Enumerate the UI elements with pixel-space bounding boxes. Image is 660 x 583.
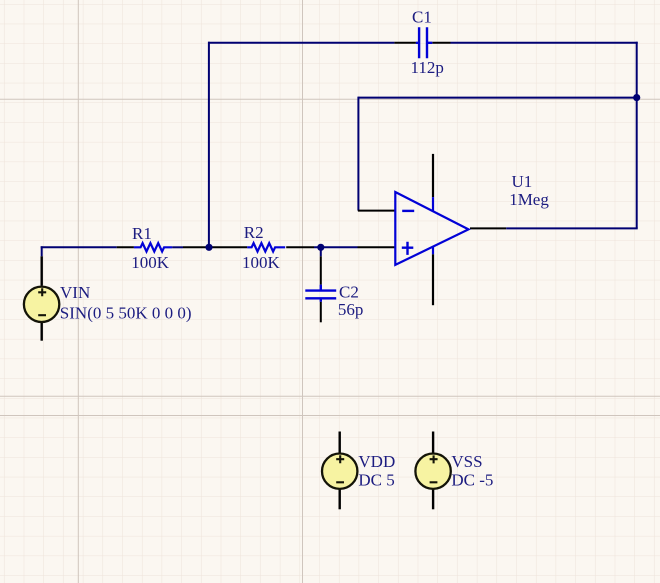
junction node A: R1/R2/left vertical [205, 244, 212, 251]
svg-text:R2: R2 [244, 223, 264, 242]
wire: right vertical from top wire to output [636, 42, 638, 229]
pin: U1 negative supply pin [432, 254, 434, 305]
op-amp U1 supply stub top [432, 197, 434, 211]
svg-text:VIN: VIN [60, 283, 90, 302]
pin: R2 pin 1 [209, 246, 247, 248]
pin: R2 pin 2 [286, 246, 314, 248]
wire: VIN top vertical [41, 246, 43, 256]
wire: R2 to node B [314, 246, 358, 248]
label R2 designator [244, 223, 264, 242]
pin: U1 output pin [470, 227, 506, 229]
svg-text:112p: 112p [411, 58, 444, 77]
pin: U1 positive supply pin [432, 154, 434, 197]
svg-text:100K: 100K [131, 253, 170, 272]
label VIN designator [60, 283, 90, 302]
wire: feedback horizontal into node at right vertical [358, 97, 636, 99]
svg-text:C1: C1 [412, 7, 432, 26]
label C1 value 112p [411, 58, 444, 77]
label C2 designator [339, 282, 359, 301]
svg-text:DC 5: DC 5 [358, 470, 394, 489]
svg-text:56p: 56p [338, 300, 364, 319]
label VDD designator [358, 452, 395, 471]
resistor R2 [247, 243, 285, 251]
wire: node B down to C2 [320, 247, 322, 256]
svg-text:U1: U1 [512, 172, 533, 191]
pin: VIN positive pin [41, 256, 43, 285]
label U1 designator [512, 172, 533, 191]
pin: VDD positive pin [339, 432, 341, 454]
wire: output to right vertical [506, 227, 638, 229]
label C2 value 56p [338, 300, 364, 319]
pin: C1 pin 2 [432, 42, 450, 44]
pin: U1 non-inverting input pin [358, 246, 396, 248]
label R1 value 100K [131, 253, 170, 272]
svg-text:VDD: VDD [358, 452, 395, 471]
pin: VSS negative pin [432, 489, 434, 509]
svg-text:1Meg: 1Meg [509, 190, 549, 209]
voltage source VIN body [24, 287, 59, 322]
junction node: feedback/output at right vertical [633, 94, 640, 101]
svg-text:C2: C2 [339, 282, 359, 301]
pin: C2 pin 1 [320, 256, 322, 284]
label VDD value DC 5 [358, 470, 394, 489]
label U1 value 1Meg [509, 190, 549, 209]
svg-text:100K: 100K [242, 253, 281, 272]
op-amp U1 minus input marker [402, 210, 414, 212]
svg-text:R1: R1 [132, 224, 152, 243]
pin: R1 pin 1 [117, 246, 134, 248]
capacitor C1 [416, 27, 432, 58]
wire: feedback left vertical down to inverting input [357, 97, 359, 211]
label VSS designator [451, 452, 482, 471]
wire: C1 top wire right segment [451, 42, 638, 44]
pin: C2 pin 2 stub [320, 302, 322, 323]
pin: VDD negative pin [339, 489, 341, 509]
capacitor C2 [305, 285, 336, 302]
label VSS value DC -5 [451, 470, 493, 489]
pin: VSS positive pin [432, 432, 434, 454]
junction node B: R2/C2/U1 input [317, 244, 324, 251]
svg-text:VSS: VSS [451, 452, 482, 471]
op-amp U1 supply stub bottom [432, 246, 434, 254]
label C1 designator [412, 7, 432, 26]
svg-text:DC -5: DC -5 [451, 470, 493, 489]
op-amp U1 triangle [395, 192, 468, 265]
wire: R1 to node A [172, 246, 183, 248]
pin: R1 pin 2 [183, 246, 209, 248]
pin: VIN negative pin stub [41, 323, 43, 341]
svg-text:SIN(0 5 50K 0 0 0): SIN(0 5 50K 0 0 0) [60, 304, 192, 323]
voltage source VDD body [322, 454, 357, 489]
voltage source VSS body [415, 454, 450, 489]
wire: VIN to R1 (main horizontal) [41, 246, 117, 248]
pin: U1 inverting input pin [358, 210, 395, 212]
op-amp U1 plus input marker [402, 242, 414, 255]
wire: C1 top wire left segment [208, 42, 394, 44]
resistor R1 [134, 243, 172, 251]
pin: C1 pin 1 [394, 42, 416, 44]
label R2 value 100K [242, 253, 281, 272]
label VIN value SIN [60, 304, 192, 323]
wire: left vertical from top wire to R1/R2 node [208, 42, 210, 248]
label R1 designator [132, 224, 152, 243]
